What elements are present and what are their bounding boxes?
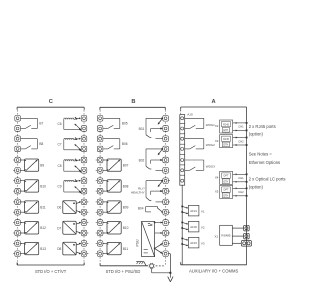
terminal B6 [96, 168, 105, 174]
svg-text:2 x RJ45 ports: 2 x RJ45 ports [249, 124, 276, 129]
svg-text:A: A [211, 99, 215, 105]
terminal B18 [163, 146, 169, 152]
terminal A5 [181, 159, 184, 162]
opto input B08 [103, 180, 128, 192]
optical port X4 [215, 171, 248, 184]
terminal C20 [81, 168, 87, 174]
terminal B20 [163, 168, 169, 174]
opto input B07 [103, 159, 128, 171]
bottom bracket C [17, 262, 84, 274]
terminal C17 [81, 136, 87, 142]
relay contact B04 [138, 206, 163, 212]
svg-text:B04: B04 [138, 206, 144, 210]
terminal C11 [13, 220, 22, 226]
slot bracket A [181, 99, 247, 110]
terminal B26 [161, 230, 170, 236]
opto input B10 [21, 180, 46, 192]
ethernet port X2 [215, 120, 248, 133]
wire PSU + [154, 222, 163, 224]
wire dashed strip C bus [18, 110, 84, 265]
CT input D7 [57, 221, 81, 234]
terminal B2 [97, 126, 103, 132]
terminal RS485 b [244, 233, 250, 239]
svg-text:AF32: AF32 [190, 225, 197, 229]
relay coil C8 [58, 158, 82, 172]
svg-text:RJ45: RJ45 [223, 138, 229, 141]
terminal A3 [181, 137, 184, 140]
terminal C7 [13, 178, 22, 184]
watchdog contact WDG1 [185, 118, 215, 128]
svg-text:(option): (option) [249, 185, 264, 190]
junction earth [169, 272, 171, 274]
note RJ45 ports [249, 124, 276, 137]
wire PSU - fork [154, 244, 162, 254]
wire RS485 scn [232, 242, 241, 244]
terminal C15 [81, 116, 87, 122]
svg-text:Ethernet Options: Ethernet Options [249, 160, 280, 165]
svg-text:C9: C9 [58, 185, 62, 189]
svg-text:WDG3: WDG3 [206, 165, 215, 169]
wire dashed earth link [156, 265, 164, 267]
terminal RS485 a [244, 225, 250, 231]
terminal C9 [13, 199, 22, 205]
terminal C4 [15, 146, 21, 152]
svg-text:D8: D8 [57, 247, 61, 251]
svg-text:B10: B10 [40, 184, 46, 188]
terminal B15 [163, 116, 169, 122]
wire earth down [152, 268, 171, 273]
note ethernet options [249, 151, 280, 164]
terminal C8 [13, 188, 22, 194]
slot bracket C [17, 99, 84, 110]
terminal C23 [80, 199, 89, 205]
wire RS485 a [232, 227, 243, 229]
svg-text:C8: C8 [58, 164, 62, 168]
svg-text:WDG2: WDG2 [206, 143, 215, 147]
opto input B11 [103, 242, 128, 254]
svg-text:V2: V2 [201, 225, 205, 229]
terminal B10 [96, 209, 105, 215]
svg-text:B11: B11 [40, 206, 46, 210]
terminal C14 [13, 251, 22, 257]
analog input AF32 [181, 221, 205, 232]
terminal block A19 [180, 113, 193, 186]
svg-text:V1: V1 [201, 209, 205, 213]
terminal B14 [96, 251, 105, 257]
svg-text:ETH: ETH [224, 195, 229, 198]
ethernet port X3 [215, 135, 248, 148]
terminal C12 [13, 230, 22, 236]
svg-text:B06: B06 [122, 142, 128, 146]
terminal C2 [15, 126, 21, 132]
opto input B9 [21, 159, 45, 171]
terminal A6 [181, 169, 184, 172]
terminal B19 [163, 157, 169, 163]
terminal C6 [13, 168, 22, 174]
right rail A [246, 107, 248, 265]
terminal C27 [80, 241, 89, 247]
svg-text:C: C [49, 99, 53, 105]
bottom bracket A [181, 262, 247, 273]
svg-text:OPT: OPT [223, 175, 229, 178]
changeover contact B01 [139, 118, 163, 139]
CT input D6 [57, 201, 81, 214]
terminal C28 [80, 251, 89, 257]
svg-text:C7: C7 [58, 142, 62, 146]
svg-text:OPT: OPT [223, 189, 229, 192]
svg-text:B7: B7 [39, 122, 43, 126]
svg-text:X5: X5 [215, 190, 219, 194]
svg-text:D7: D7 [57, 226, 61, 230]
svg-text:B9: B9 [40, 164, 44, 168]
terminal B28 [161, 251, 170, 257]
terminal B11 [96, 220, 105, 226]
svg-text:PSU: PSU [135, 239, 139, 247]
svg-text:V3: V3 [201, 241, 205, 245]
terminal C21 [81, 178, 87, 184]
opto input B10 [103, 222, 128, 235]
relay contact B06 [103, 139, 128, 149]
svg-text:X2: X2 [215, 124, 219, 128]
svg-text:WDG1: WDG1 [206, 123, 215, 127]
terminal B9 [96, 199, 105, 205]
terminal B16 [163, 126, 169, 132]
terminal RS485 screen [241, 241, 251, 247]
svg-text:B02: B02 [139, 159, 145, 163]
wire dashed strip A top [180, 110, 182, 114]
svg-text:HEALTHY: HEALTHY [131, 190, 145, 194]
terminal B13 [96, 241, 105, 247]
ground [168, 277, 173, 282]
svg-text:ETH: ETH [224, 181, 229, 184]
svg-text:B07: B07 [123, 164, 129, 168]
terminal B5 [96, 157, 105, 163]
wire dashed strip B bus [100, 110, 166, 265]
terminal B7 [96, 178, 105, 184]
svg-text:X3: X3 [215, 139, 219, 143]
terminal C16 [81, 126, 87, 132]
slot bracket B [100, 99, 165, 110]
changeover contact B02 [139, 148, 163, 170]
terminal B1 [97, 116, 103, 122]
svg-text:RS485: RS485 [221, 234, 231, 238]
svg-text:See Notes =: See Notes = [249, 151, 273, 156]
terminal C26 [80, 230, 89, 236]
svg-text:CH2: CH2 [238, 190, 244, 194]
terminal C13 [13, 241, 22, 247]
terminal C24 [80, 209, 89, 215]
relay coil C9 [58, 179, 82, 193]
relay coil C6 [58, 117, 82, 131]
terminal A7 [181, 179, 184, 182]
svg-text:B10: B10 [123, 226, 129, 230]
svg-text:STD I/O + PSU/SD: STD I/O + PSU/SD [106, 269, 141, 274]
relay contact B05 [103, 118, 128, 128]
terminal A4 [181, 147, 184, 150]
power supply PSU [135, 221, 154, 256]
terminal B12 [96, 230, 105, 236]
serial port RS485 X1 [215, 225, 233, 245]
svg-text:X4: X4 [215, 176, 219, 180]
svg-text:B12: B12 [40, 226, 46, 230]
optical port X5 [215, 185, 248, 198]
svg-text:B: B [131, 99, 135, 105]
terminal B17 [163, 136, 169, 142]
terminal C25 [80, 220, 89, 226]
svg-text:AF21: AF21 [190, 209, 197, 213]
svg-text:CH1: CH1 [238, 176, 244, 180]
svg-text:B13: B13 [40, 247, 46, 251]
svg-text:B01: B01 [139, 127, 145, 131]
terminal C18 [81, 146, 87, 152]
analog input AF15 [181, 237, 205, 248]
note optical ports [249, 177, 286, 190]
terminal C3 [15, 136, 21, 142]
terminal C5 [13, 157, 22, 163]
terminal B4 [97, 146, 103, 152]
terminal B8 [96, 188, 105, 194]
wire strip A rail down [181, 185, 183, 265]
analog input AF21 [181, 205, 205, 216]
bottom bracket B [100, 263, 148, 274]
terminal C1 [15, 116, 21, 122]
watchdog contact WDG2 [185, 139, 215, 149]
svg-text:ETH: ETH [224, 129, 229, 132]
opto input B13 [21, 242, 46, 254]
opto input B09 [103, 201, 128, 213]
terminal A2 [181, 127, 184, 130]
terminal B23 [161, 199, 170, 205]
svg-text:(option): (option) [249, 132, 264, 137]
earth stud [149, 263, 155, 269]
wire RS485 b [232, 235, 243, 237]
terminal A1 [181, 117, 184, 120]
svg-text:D6: D6 [57, 206, 61, 210]
svg-text:STD I/O + CT/VT: STD I/O + CT/VT [35, 269, 67, 274]
terminal B27 [161, 241, 170, 247]
svg-text:B8: B8 [39, 142, 43, 146]
svg-text:B09: B09 [123, 206, 129, 210]
svg-text:AF15: AF15 [190, 241, 197, 245]
svg-text:B05: B05 [122, 122, 128, 126]
svg-text:ETH: ETH [224, 144, 229, 147]
terminal B3 [97, 136, 103, 142]
relay contact B8 [21, 139, 44, 149]
opto input B11 [21, 201, 46, 213]
svg-text:2 x Optical LC ports: 2 x Optical LC ports [249, 177, 286, 182]
terminal B21 [161, 178, 170, 184]
terminal B25 [161, 220, 170, 226]
watchdog relay RLY HEALTHY [131, 180, 163, 202]
watchdog contact WDG3 [185, 160, 215, 170]
svg-text:AUXILIARY I/O + COMMS: AUXILIARY I/O + COMMS [189, 268, 239, 273]
terminal B22 [161, 188, 170, 194]
svg-text:B08: B08 [123, 184, 129, 188]
svg-text:CH1: CH1 [238, 125, 244, 129]
svg-text:A19: A19 [187, 113, 193, 117]
chassis ground [136, 262, 146, 266]
terminal C10 [13, 209, 22, 215]
wire case earth from B14 [169, 254, 171, 278]
svg-text:B11: B11 [123, 247, 129, 251]
relay contact B7 [21, 118, 44, 128]
terminal C22 [81, 188, 87, 194]
svg-text:C6: C6 [58, 122, 62, 126]
svg-text:X1: X1 [215, 235, 219, 239]
opto input B12 [21, 222, 46, 235]
terminal C19 [81, 157, 87, 163]
svg-text:RJ45: RJ45 [223, 123, 229, 126]
CT input D8 [57, 242, 81, 255]
wire PSU aux [155, 232, 163, 234]
terminal B24 [161, 209, 170, 215]
svg-text:CH2: CH2 [238, 139, 244, 143]
relay coil C7 [58, 137, 82, 151]
